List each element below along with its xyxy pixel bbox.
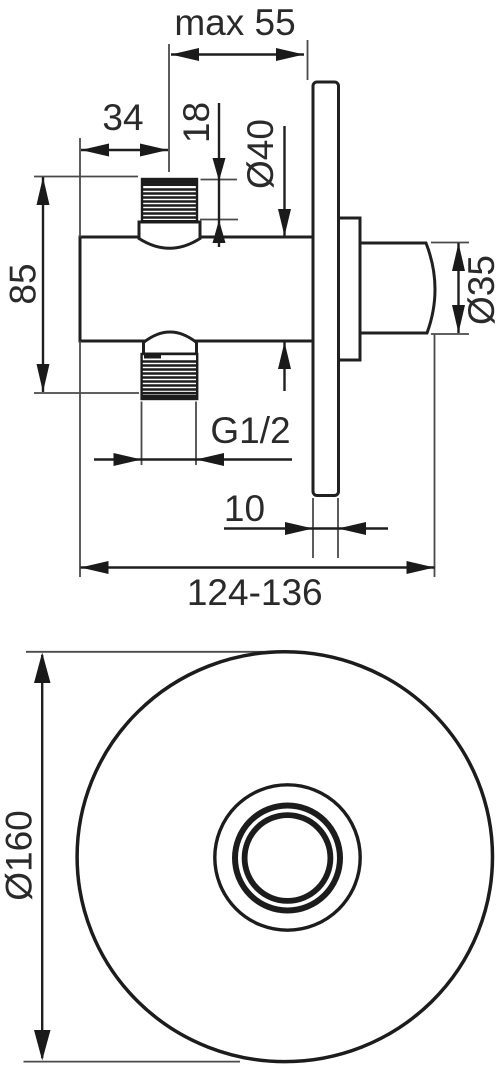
dim 34 (81, 149, 168, 151)
ext line body left edge extended (79, 138, 81, 577)
svg-text:Ø160: Ø160 (0, 810, 40, 901)
svg-text:Ø35: Ø35 (461, 255, 500, 325)
top inlet collar (139, 222, 200, 248)
dim Ø35 (457, 243, 459, 333)
ext line pipe end (124-136) (434, 334, 436, 577)
svg-text:85: 85 (3, 263, 44, 304)
escutcheon flange (330, 218, 360, 360)
ext line plate face (max55) (307, 40, 309, 80)
valve body (80, 237, 313, 341)
front view: trim outer ring (215, 785, 360, 930)
ext line 18 bottom (200, 219, 238, 221)
front view: handle ring inner (245, 815, 331, 901)
ext line Ø35 top (431, 242, 469, 244)
ext line Ø35 bottom (431, 333, 469, 335)
svg-text:34: 34 (102, 97, 143, 138)
outlet pipe stub (360, 243, 435, 333)
ext line 85 bottom (34, 392, 139, 394)
ext line 85 top (34, 176, 138, 178)
ext line plate right (10) (337, 498, 339, 558)
dim 85 (42, 177, 44, 392)
dim 124-136 (81, 566, 435, 568)
ext line 18 top (201, 179, 238, 181)
ext line G1/2 left (141, 402, 143, 466)
svg-text:10: 10 (224, 488, 265, 529)
front view: cover plate circle (77, 652, 492, 1062)
bottom outlet collar (144, 332, 197, 354)
ext line thread axis (max55 / 34) (168, 44, 170, 172)
wall mounting plate (313, 82, 339, 496)
dim 18 (218, 103, 220, 247)
bottom outlet thread G1/2 (142, 354, 198, 399)
svg-text:Ø40: Ø40 (240, 119, 281, 189)
svg-text:max 55: max 55 (174, 2, 295, 43)
ext line circle bottom tangent (24, 1061, 241, 1063)
dim Ø40 (283, 126, 285, 391)
ext line G1/2 right (195, 402, 197, 466)
dim Ø160 (41, 655, 43, 1058)
dim max 55 (171, 53, 304, 55)
ext line circle top tangent (26, 651, 280, 653)
front view: handle ring outer (235, 806, 340, 911)
ext line plate left (10) (312, 498, 314, 558)
dim 10 (224, 527, 388, 529)
svg-text:G1/2: G1/2 (210, 410, 290, 451)
dim G1/2 (94, 458, 292, 460)
svg-text:18: 18 (176, 102, 217, 143)
svg-text:124-136: 124-136 (187, 572, 323, 613)
top inlet thread G1/2 (142, 179, 197, 222)
